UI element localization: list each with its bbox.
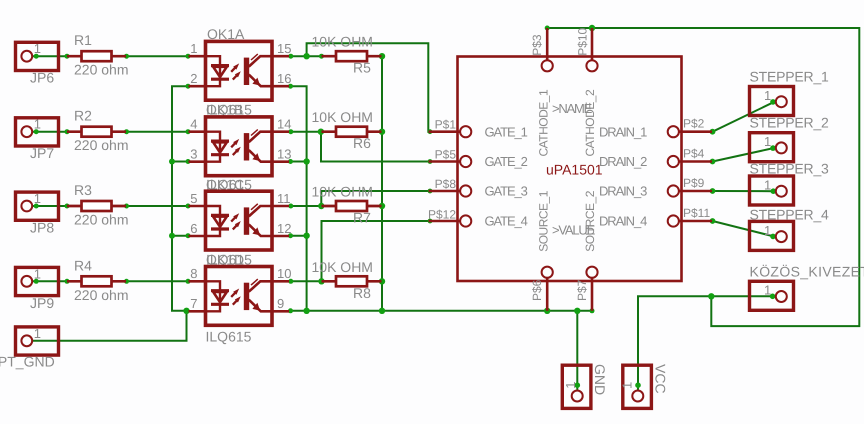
svg-text:>NAME: >NAME [552,101,593,116]
svg-text:8: 8 [190,266,197,281]
svg-text:1: 1 [34,117,41,132]
resistor R8 leads [322,280,382,283]
pin connection dot P$7 [590,308,595,313]
svg-text:4: 4 [190,117,197,132]
wire R1 to OK1A pin 1 [127,55,189,57]
svg-text:JP6: JP6 [30,70,54,86]
resistor R5 leads [322,55,382,58]
junction dots emitter bus tees [303,158,309,314]
svg-text:STEPPER_4: STEPPER_4 [750,206,830,222]
wire pin 12 to emitter bus [291,235,307,237]
connector STEPPER_3 [750,176,794,205]
svg-text:16: 16 [277,71,291,86]
OK1C pin numbers [190,191,291,236]
connector JP9 [16,267,59,295]
svg-text:R6: R6 [353,135,371,151]
OK1B light arrows [231,139,241,155]
svg-text:P$12: P$12 [428,207,456,221]
IC left pins P$1 P$5 P$8 P$12 [429,126,472,226]
svg-text:P$8: P$8 [435,177,457,191]
wire pin 13 to emitter bus [291,161,307,163]
wire P$9 to STEPPER_3 [713,190,775,192]
svg-text:DRAIN_3: DRAIN_3 [599,184,647,199]
OK1D pin numbers [190,266,291,311]
resistor R4 leads [67,280,126,283]
svg-text:220 ohm: 220 ohm [74,212,128,228]
svg-text:220 ohm: 220 ohm [74,137,128,153]
resistor R7 leads [322,205,382,208]
svg-text:R8: R8 [353,285,371,301]
svg-text:R7: R7 [353,210,371,226]
svg-text:2: 2 [190,71,197,86]
wire JP6 to R1 [33,55,68,57]
svg-text:12: 12 [277,221,291,236]
junction dots JP7/R2 row [34,129,191,134]
svg-text:1: 1 [34,41,41,56]
svg-text:STEPPER_2: STEPPER_2 [750,115,830,131]
resistor R5 body [336,51,367,61]
wire 10K resistor rail R5-R8 [381,56,383,311]
optocoupler OK1B (channel 2) box [206,117,273,176]
OK1C LED [206,206,230,236]
wire R3 to OK1C pin 5 [127,205,189,207]
svg-text:1: 1 [34,191,41,206]
svg-text:STEPPER_1: STEPPER_1 [750,68,830,84]
wire emitter bus (pins 16,13,12,9) [291,86,307,311]
OK1B phototransistor [244,130,272,162]
junction dots cathode bus pins 2,3,6 [186,84,191,239]
wire pin15 node to P$1 GATE_1 [307,43,430,131]
OK1B pin stubs [189,132,290,162]
wire OK1A pin 15 to R5 [289,55,322,57]
wire VCC riser and KOZOS_KIVEZET feed [638,296,775,390]
svg-text:JP8: JP8 [30,220,54,236]
connector OPT_GND [16,327,59,355]
svg-text:DRAIN_1: DRAIN_1 [599,124,647,139]
junction dot KOZOS feed tee [708,293,714,299]
OK1A light arrows [231,63,241,79]
connector STEPPER_1 [750,87,794,116]
svg-text:SOURCE_1: SOURCE_1 [537,190,551,252]
pin connection dot pin10 [288,279,293,284]
svg-text:10K OHM: 10K OHM [312,184,373,200]
svg-text:P$7: P$7 [575,279,589,301]
junction dots R6 row [318,129,386,135]
svg-text:10: 10 [277,266,291,281]
OK1A pin numbers [190,41,291,86]
svg-text:1: 1 [764,223,771,238]
svg-text:GATE_2: GATE_2 [485,154,528,169]
svg-text:1: 1 [34,266,41,281]
svg-text:SOURCE_2: SOURCE_2 [583,190,597,252]
wire OK1D pin 10 to R8 [289,280,336,282]
svg-text:13: 13 [277,147,291,162]
svg-text:OPT_GND: OPT_GND [0,354,55,370]
svg-text:R1: R1 [74,32,92,48]
wire P$2 to STEPPER_1 [713,102,775,132]
OK1D phototransistor [244,279,272,311]
junction dots JP9/R4 row [34,279,191,284]
junction dot pin 7 / OPT_GND / bus [183,308,189,314]
junction dots pin15 node / rail top [303,53,385,59]
svg-text:220 ohm: 220 ohm [74,287,128,303]
wire JP7 to R2 [33,131,68,133]
svg-text:OK1A: OK1A [207,26,245,42]
IC top pins P$3 P$10 [542,28,598,71]
OK1A LED [206,56,230,86]
junction dots JP6/R1 row [34,54,191,59]
svg-text:JP9: JP9 [30,295,54,311]
pin connection dot pin11 [288,204,293,209]
junction dots R8 row [318,278,385,284]
wire OK1C pin 11 to R7 [289,205,336,207]
pin connection dots GND/VCC connectors [575,382,641,388]
svg-text:P$2: P$2 [683,117,705,131]
svg-text:7: 7 [190,296,197,311]
svg-text:1: 1 [764,283,771,298]
svg-text:P$6: P$6 [530,279,544,301]
wire GND net pin9 to P$6/P$7 [291,310,593,312]
pin connection dot KOZOS [770,294,776,300]
svg-text:R2: R2 [74,108,92,124]
resistor R3 body [82,201,112,211]
OK1D LED [206,281,230,311]
svg-text:P$9: P$9 [683,176,705,190]
wire bus stub to pin 6 [172,235,189,237]
svg-text:P$11: P$11 [683,206,710,220]
connector KOZOS_KIVEZET [750,281,794,310]
OK1D pin stubs [189,281,290,311]
connector GND [562,365,591,408]
resistor R8 body [336,276,367,286]
wire pin10 node to P$12 GATE_4 [322,221,431,281]
junction dots JP8/R3 row [34,204,191,209]
svg-text:1: 1 [764,134,771,149]
svg-text:1: 1 [764,88,771,103]
svg-text:15: 15 [277,41,291,56]
optocoupler OK1A (channel 1) box [206,41,273,100]
svg-text:5: 5 [190,191,197,206]
svg-text:KÖZÖS_KIVEZET: KÖZÖS_KIVEZET [750,264,864,280]
svg-text:GATE_4: GATE_4 [485,214,528,229]
OK1A phototransistor [244,54,272,86]
svg-text:P$5: P$5 [435,147,457,161]
optocoupler OK1D (channel 4) box [206,267,273,326]
svg-text:3: 3 [190,147,197,162]
svg-text:DRAIN_2: DRAIN_2 [599,154,647,169]
svg-text:STEPPER_3: STEPPER_3 [750,160,830,176]
svg-text:220 ohm: 220 ohm [74,62,128,78]
pin connection dot P$3 [545,26,550,31]
wire bus stub to pin 3 [172,161,189,163]
resistor R6 body [336,127,367,137]
resistor R7 body [336,201,367,211]
svg-text:DRAIN_4: DRAIN_4 [599,214,647,229]
svg-text:P$3: P$3 [530,34,544,56]
svg-text:10K OHM: 10K OHM [312,34,373,50]
OK1B LED [206,132,230,162]
resistor R1 leads [67,55,126,58]
OK1A pin stubs [189,56,290,86]
IC U1 uPA1501 body [458,57,682,282]
svg-text:10K OHM: 10K OHM [312,259,373,275]
wire R4 to OK1D pin 8 [127,280,189,282]
svg-text:1: 1 [563,382,578,389]
OK1C pin stubs [189,206,290,236]
resistor R1 body [82,51,112,61]
wire OPT_GND to pin 7 [33,311,187,341]
svg-text:ILQ615: ILQ615 [206,329,252,345]
wire JP9 to R4 [33,280,68,282]
svg-text:11: 11 [277,191,291,206]
IC bottom pins P$6 P$7 [542,267,598,311]
connector JP8 [16,192,59,220]
connector STEPPER_4 [750,221,794,250]
wire OK1B pin 14 to R6 [289,131,336,133]
resistor R4 body [82,276,112,286]
svg-text:10K OHM: 10K OHM [312,109,373,125]
wire GND riser to GND connector [576,311,578,390]
pin connection dots IC right pins [710,129,716,224]
svg-text:R3: R3 [74,182,92,198]
junction dots GND line [379,308,581,314]
svg-text:CATHODE_1: CATHODE_1 [537,89,551,156]
optocoupler OK1C (channel 3) box [206,191,273,250]
OK1C phototransistor [244,204,272,236]
svg-text:P$1: P$1 [435,118,457,132]
wire pin14 node to P$5 GATE_2 [321,132,430,162]
svg-text:GATE_3: GATE_3 [485,184,528,199]
wire R2 to OK1B pin 4 [127,131,189,133]
OK1D light arrows [231,289,241,305]
pin connection dots pin15 row [288,54,324,59]
IC right pins P$2 P$4 P$9 P$11 [668,126,712,226]
pin connection dot pin14 [288,129,293,134]
svg-text:GND: GND [592,364,608,395]
junction dot P$10 top net [589,25,595,31]
OK1B pin numbers [190,117,291,162]
svg-text:1: 1 [34,326,41,341]
pin connection dots emitter pins 16,13,12,9 [288,84,293,314]
svg-text:GATE_1: GATE_1 [485,124,528,139]
junction dots cathode bus tees [169,159,175,239]
pin connection dots IC left pins [428,129,433,223]
svg-text:JP7: JP7 [30,145,54,161]
svg-text:P$10: P$10 [576,27,590,55]
svg-text:P$4: P$4 [683,146,705,160]
svg-text:>VALUE: >VALUE [552,223,596,238]
svg-text:1: 1 [620,382,635,389]
wire P$11 to STEPPER_4 [713,221,775,237]
svg-text:R5: R5 [353,60,371,76]
svg-text:CATHODE_2: CATHODE_2 [583,89,597,156]
svg-text:6: 6 [190,221,197,236]
connector JP7 [16,118,59,146]
resistor R6 leads [322,130,382,133]
resistor R2 body [82,127,112,137]
svg-text:R4: R4 [74,257,92,273]
wire JP8 to R3 [33,205,68,207]
svg-text:uPA1501: uPA1501 [546,162,603,178]
junction dots R7 row [318,203,385,209]
resistor R3 leads [67,205,126,208]
svg-text:VCC: VCC [653,364,669,394]
wire LED cathode bus (pins 2,3,6,7) [172,86,189,311]
svg-text:1: 1 [764,177,771,192]
wire P$4 to STEPPER_2 [713,148,775,162]
wire pin11 node to P$8 GATE_3 [321,191,430,206]
OK1C light arrows [231,213,241,229]
pin connection dots steppers [770,99,776,239]
connector STEPPER_2 [750,133,794,162]
connector JP6 [16,42,59,70]
svg-text:14: 14 [277,117,291,132]
wire VCC loop to P$3/P$10 [546,28,860,326]
resistor R2 leads [67,130,126,133]
svg-text:1: 1 [190,41,197,56]
svg-text:9: 9 [277,296,284,311]
connector VCC [623,365,652,408]
